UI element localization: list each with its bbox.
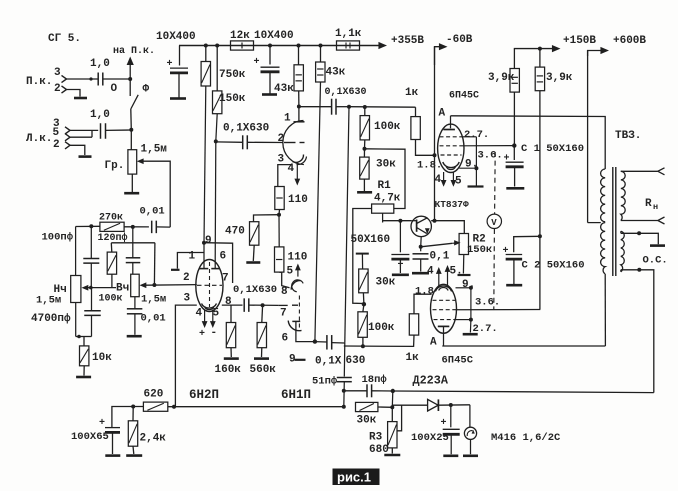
switch contact — [131, 95, 138, 109]
resistor 160к — [230, 305, 232, 322]
resistor 30к first — [363, 149, 365, 157]
svg-text:43к: 43к — [274, 83, 294, 95]
6Н2П heater arrows — [204, 310, 206, 324]
potentiometer R1 — [372, 204, 394, 213]
wire cathode to bar — [459, 167, 476, 169]
diode Д223А — [393, 404, 428, 406]
dashed screen line upper — [494, 152, 497, 214]
wire Нч wiper — [88, 287, 116, 289]
ground С1 — [506, 187, 524, 190]
wire 2.7 into tube — [456, 319, 471, 321]
svg-text:0,1Х630: 0,1Х630 — [325, 87, 367, 98]
svg-text:0,1Х630: 0,1Х630 — [223, 123, 269, 135]
triode V1a cathode arrow down — [296, 163, 298, 181]
triode V1a anode — [297, 105, 301, 109]
triode V1a cathode arc — [293, 155, 304, 163]
wire -60В line down to transistor collector — [434, 47, 436, 221]
svg-text:-: - — [211, 327, 218, 339]
junction 30к-2 100к-2 — [363, 304, 364, 312]
svg-text:560к: 560к — [250, 364, 277, 376]
resistor 43к right — [320, 46, 322, 63]
R1 wiper down to base wire — [382, 213, 384, 222]
svg-text:П.к.: П.к. — [26, 76, 52, 88]
svg-text:1.8: 1.8 — [415, 286, 434, 298]
caption рис.1 — [333, 469, 380, 486]
svg-text:+600В: +600В — [613, 35, 646, 47]
svg-text:630: 630 — [346, 355, 366, 367]
wire cathode pin3 to 110 resistor — [278, 165, 292, 187]
pin 5 bar upper — [468, 185, 484, 187]
wire Вч wiper to 6Н2П grid — [146, 284, 197, 287]
wire Гр bottom to ground — [131, 174, 133, 192]
svg-text:1к: 1к — [405, 87, 419, 99]
svg-text:R: R — [645, 198, 652, 210]
wire Л.к. pin2 to ground — [70, 145, 85, 155]
svg-text:4,7к: 4,7к — [374, 193, 401, 205]
svg-text:0,01: 0,01 — [140, 206, 165, 218]
svg-text:R3: R3 — [369, 432, 383, 444]
svg-text:5: 5 — [53, 127, 60, 139]
+600В corner arrow — [588, 51, 605, 57]
R2 bottom to pin5 bar lower — [462, 255, 464, 274]
junction 43к-right on bus — [319, 44, 323, 48]
svg-text:0,1: 0,1 — [430, 251, 450, 263]
svg-text:6П45С: 6П45С — [442, 355, 474, 367]
lower tube cathode arcs top — [435, 286, 451, 292]
capacitor 120пф — [132, 227, 134, 258]
svg-text:12к: 12к — [230, 30, 250, 42]
svg-text:КТ837Ф: КТ837Ф — [435, 199, 470, 210]
svg-text:+: + — [503, 246, 509, 257]
svg-text:100к: 100к — [99, 294, 123, 305]
svg-text:А: А — [430, 337, 437, 349]
svg-text:2: 2 — [183, 272, 190, 284]
svg-text:9.: 9. — [462, 279, 475, 291]
bottom left wire — [112, 407, 143, 428]
ground Гр — [124, 192, 139, 195]
transformer secondary upper terminals — [621, 170, 658, 172]
svg-text:7: 7 — [222, 273, 229, 285]
capacitor 0,01 second — [134, 297, 136, 309]
emitter wire down — [420, 237, 423, 247]
anode wire upper tube to transformer — [451, 116, 606, 169]
svg-text:Л.к.: Л.к. — [26, 133, 52, 145]
tube 6П45С lower envelope — [431, 284, 457, 333]
emitter wire to R2 wiper — [421, 243, 453, 247]
capacitor 50Х160 base electrolytic — [399, 221, 401, 253]
svg-text:3,9к: 3,9к — [546, 72, 573, 84]
svg-text:18пф: 18пф — [362, 373, 388, 386]
capacitor 0,1Х630 fourth — [315, 341, 327, 343]
svg-text:3.6.: 3.6. — [478, 150, 503, 162]
wire join pot and cap bottoms — [76, 336, 92, 338]
base wire from R1 wiper — [383, 220, 412, 222]
wire cap to switch node — [106, 129, 132, 131]
svg-text:+355В: +355В — [391, 35, 424, 47]
svg-text:6П45С: 6П45С — [449, 91, 479, 102]
svg-text:470: 470 — [225, 226, 245, 238]
svg-text:+: + — [398, 260, 404, 271]
ground 0,01 second — [127, 335, 142, 338]
anode bus lower — [442, 345, 605, 347]
svg-text:100к: 100к — [368, 322, 395, 334]
ground 100Х65 — [105, 454, 120, 457]
tube 6Н2П envelope — [196, 260, 223, 312]
wire 150к down to junction and anode 2 — [216, 114, 217, 142]
wire cap to grid bus node — [336, 106, 349, 108]
svg-text:V: V — [491, 218, 497, 228]
wire grid bus to 1к corner — [349, 106, 416, 109]
wire 3,9к-left down to C1 node — [513, 92, 515, 146]
connector Л.к. pin 2 — [65, 142, 70, 149]
ground 2,4к — [132, 446, 135, 454]
Вч wiper arrow — [140, 282, 147, 288]
6Н2П cathode arc — [202, 304, 217, 309]
svg-text:М416 1,6/2С: М416 1,6/2С — [491, 432, 561, 444]
svg-text:5: 5 — [213, 308, 220, 320]
meter М416 — [469, 405, 471, 427]
switch Ш arrow to на П.к. — [127, 57, 134, 66]
svg-text:6: 6 — [220, 251, 227, 263]
svg-text:1,0: 1,0 — [90, 109, 110, 121]
resistor 100к first — [364, 107, 366, 116]
wire to 470 resistor — [254, 215, 280, 222]
svg-text:1,5м: 1,5м — [141, 294, 166, 306]
svg-text:+: + — [504, 154, 510, 165]
connector Л.к. pin 5 — [65, 134, 70, 141]
junction 43к-left on bus — [297, 44, 301, 48]
junction below 110 — [278, 210, 281, 215]
svg-text:30к: 30к — [376, 277, 396, 289]
long wire 43к-right down the page — [315, 82, 321, 342]
svg-text:100Х65: 100Х65 — [71, 431, 109, 443]
svg-text:+150В: +150В — [563, 35, 596, 47]
ground 470 — [246, 261, 260, 264]
-60В corner and arrow — [435, 47, 444, 65]
resistor 150к — [216, 46, 218, 91]
svg-text:8: 8 — [281, 286, 288, 298]
svg-text:4: 4 — [427, 266, 434, 278]
triode V1a grid dashes — [284, 142, 296, 144]
resistor 3,9к right — [539, 49, 541, 68]
svg-text:1,5м: 1,5м — [141, 144, 168, 156]
svg-text:С 1 50Х160: С 1 50Х160 — [521, 143, 584, 155]
svg-text:9: 9 — [205, 235, 212, 247]
svg-text:4: 4 — [435, 174, 442, 186]
svg-text:1,0: 1,0 — [90, 58, 110, 70]
grid network vertical line — [345, 107, 349, 343]
transformer primary winding lower — [601, 223, 606, 274]
6Н2П pin9 wire to grid2 — [204, 243, 233, 283]
wire 750к down to 6Н2П anode 1 — [204, 86, 206, 243]
wire node down — [391, 391, 394, 407]
svg-text:3,9к: 3,9к — [488, 72, 515, 84]
lower tube anode — [438, 325, 450, 327]
secondary lower bottom terminal feedback — [620, 270, 622, 272]
grid line junction 100к-2 — [361, 344, 365, 348]
connector П.к. pin 2 — [62, 86, 67, 93]
ground С2 — [506, 284, 522, 287]
resistor 43к left — [298, 46, 300, 65]
svg-text:110: 110 — [288, 194, 308, 206]
svg-text:О.С.: О.С. — [643, 255, 668, 267]
junction 100к 30к — [364, 140, 366, 149]
1к lower bottom to grid line — [344, 335, 414, 346]
ground Л.к. — [79, 155, 92, 158]
wire grid2 lower to 3,9к right line — [456, 309, 541, 311]
ground М416 — [463, 454, 478, 457]
svg-text:О: О — [111, 83, 118, 95]
connector П.к. pin 3 — [62, 75, 67, 82]
secondary lower top terminal to ground — [620, 231, 622, 233]
svg-text:2: 2 — [54, 83, 61, 95]
svg-text:1,5м: 1,5м — [36, 295, 61, 307]
wire 270к to 0,01 — [124, 226, 149, 228]
resistor 110 second bottom wire to 6Н1П anode — [279, 272, 289, 288]
svg-text:5: 5 — [287, 266, 294, 278]
svg-text:150к: 150к — [219, 93, 246, 105]
transformer primary winding upper — [601, 169, 606, 222]
upper tube grid dashes — [440, 136, 463, 138]
voltmeter circle — [487, 214, 501, 228]
arrow +355В — [378, 42, 387, 49]
R1 left wire down — [353, 209, 372, 304]
capacitor 0,1Х630 second — [331, 99, 333, 115]
svg-text:2,4к: 2,4к — [140, 433, 167, 445]
svg-text:рис.1: рис.1 — [337, 470, 371, 485]
capacitor 4700пф — [91, 288, 93, 311]
wire R1 left line to 30к junction — [352, 302, 354, 304]
svg-text:6Н2П: 6Н2П — [189, 388, 219, 402]
svg-text:6: 6 — [282, 333, 289, 345]
svg-text:А: А — [439, 108, 446, 120]
svg-text:750к: 750к — [219, 69, 246, 81]
svg-text:1к: 1к — [406, 352, 420, 364]
svg-text:5.: 5. — [450, 266, 463, 278]
feedback wire from transformer — [393, 391, 654, 393]
power bus +355В wire — [179, 45, 382, 47]
svg-text:3: 3 — [54, 67, 61, 79]
wire switch down to Л.к. node — [130, 109, 133, 130]
junction 3,9к right on +150В bus — [538, 47, 542, 51]
wire 30к to ground — [363, 179, 365, 191]
wire 3,9к-right down to lower screen node — [539, 91, 541, 310]
wire Нч top — [75, 227, 77, 276]
svg-text:50Х160: 50Х160 — [351, 234, 391, 246]
tube 6Н1П anode arc — [291, 281, 300, 290]
wire 30к to R3 node — [378, 406, 392, 408]
tube 6П45С upper envelope — [438, 124, 464, 172]
resistor 10к — [83, 337, 85, 346]
capacitor 100пф — [90, 226, 92, 258]
svg-text:7: 7 — [280, 308, 287, 320]
transformer secondary winding lower — [621, 231, 624, 272]
resistor 100к tone — [107, 252, 116, 274]
wire junction down to 110 second — [278, 215, 280, 247]
wire anode node to coupling cap — [299, 106, 332, 108]
svg-text:0,01: 0,01 — [141, 313, 166, 325]
svg-text:ТВЗ.: ТВЗ. — [615, 130, 641, 142]
svg-text:30к: 30к — [357, 415, 377, 427]
6Н2П pin3 wire down to 620 node — [175, 305, 196, 406]
svg-text:2: 2 — [53, 139, 60, 151]
svg-text:4: 4 — [196, 308, 203, 320]
wire П.к. pin2 to ground — [67, 90, 81, 97]
Гр wiper arrow — [137, 158, 144, 164]
resistor 110 first — [275, 187, 284, 210]
svg-text:3.6.: 3.6. — [475, 297, 500, 309]
transformer core lines — [612, 167, 614, 276]
svg-text:51пф: 51пф — [312, 375, 338, 388]
upper tube anode — [450, 116, 452, 129]
wire junction to R1 right end — [365, 149, 406, 209]
svg-text:Вч: Вч — [116, 283, 129, 295]
wire 1к to -60В line — [416, 140, 435, 156]
svg-text:1,1к: 1,1к — [335, 28, 362, 40]
svg-text:+: + — [441, 418, 447, 429]
wire Л.к. pin3 pin5 join — [70, 129, 98, 131]
ground 50Х160 — [392, 273, 409, 276]
tube 6Н1П divider dash — [298, 296, 300, 330]
resistor 110 second — [275, 247, 284, 272]
svg-text:4700пф: 4700пф — [31, 312, 71, 325]
svg-text:Д223А: Д223А — [413, 374, 449, 388]
wire 0,01 corner up to Гр wiper line — [156, 226, 170, 228]
svg-text:100пф: 100пф — [42, 231, 74, 244]
svg-text:н: н — [653, 202, 658, 212]
svg-text:+: + — [199, 329, 205, 340]
wire tone top — [76, 225, 100, 227]
wire 10к ground — [83, 366, 85, 376]
svg-text:10Х400: 10Х400 — [254, 30, 294, 42]
6Н2П pin1 wire and stub — [177, 253, 204, 269]
transformer secondary winding upper — [621, 171, 625, 220]
ground of second 10Х400 — [262, 93, 277, 96]
wire cap to 6Н1П grid — [249, 304, 278, 306]
wire Нч bottom — [75, 303, 77, 337]
wire grid1 to cathode bar — [463, 136, 477, 138]
wire grid2 to C1 node — [463, 145, 515, 147]
svg-text:Гр.: Гр. — [105, 160, 125, 172]
transformer primary bottom to anode bus — [604, 274, 606, 346]
wire +600В down to transformer tap — [587, 51, 589, 223]
upper tube cathode arcs — [443, 162, 459, 168]
ground 560к — [261, 348, 263, 357]
wire 470 to ground — [252, 245, 255, 261]
ground R3 — [391, 448, 393, 454]
connector Л.к. pin 3 — [65, 127, 70, 134]
resistor 560к — [261, 305, 264, 322]
T bar above 30к second — [356, 253, 369, 255]
svg-text:110: 110 — [288, 252, 308, 264]
svg-text:30к: 30к — [376, 159, 396, 171]
6Н2П pin8 wire to coupling cap — [222, 304, 243, 306]
Нч wiper arrow — [82, 285, 89, 291]
svg-text:2: 2 — [278, 133, 285, 145]
wire diode to meter branch — [438, 404, 470, 406]
svg-text:1: 1 — [284, 113, 291, 125]
svg-text:R1: R1 — [378, 180, 392, 192]
junction 150к on bus — [215, 44, 219, 48]
wire tone mid — [111, 242, 155, 244]
ground 0,1 — [412, 272, 429, 275]
svg-text:+: + — [99, 418, 105, 429]
svg-text:+: + — [254, 57, 260, 68]
resistor 750к — [205, 46, 207, 62]
svg-text:620: 620 — [144, 389, 164, 401]
junction 750к on bus — [204, 44, 208, 48]
ground of first 10Х400 — [170, 97, 186, 100]
tube 6Н1П cathode — [288, 321, 301, 331]
svg-text:0,1Х630: 0,1Х630 — [233, 284, 277, 296]
svg-text:150к: 150к — [467, 244, 492, 256]
wire 2.7 node to ground — [469, 320, 472, 333]
ground 10к — [76, 376, 91, 379]
svg-text:5: 5 — [455, 176, 462, 188]
transistor КТ837Ф — [411, 216, 431, 236]
resistor 2,4к — [132, 407, 134, 421]
+150В bus wire — [514, 48, 556, 50]
svg-text:10к: 10к — [92, 352, 112, 364]
svg-text:на П.к.: на П.к. — [113, 46, 155, 57]
svg-text:100к: 100к — [374, 121, 401, 133]
wire cap to switch node — [103, 78, 130, 80]
wire node to Гр pot — [130, 130, 132, 150]
svg-text:1.8.: 1.8. — [417, 160, 442, 172]
ground О.С. — [650, 244, 665, 247]
6Н2П grid dash line — [197, 284, 222, 286]
triode V1a envelope — [283, 121, 304, 165]
wire Гр wiper to tone network — [144, 161, 171, 227]
svg-text:160к: 160к — [215, 364, 242, 376]
6Н2П divider dash line — [209, 262, 211, 307]
wire 9 to 2.7 node — [470, 288, 472, 320]
svg-text:3: 3 — [278, 154, 285, 166]
ground 160к — [230, 348, 232, 357]
svg-text:6Н1П: 6Н1П — [281, 388, 311, 402]
6Н2П anode leads — [202, 241, 206, 245]
svg-text:43к: 43к — [326, 67, 346, 79]
ground П.к. — [74, 97, 87, 100]
ground 100Х25 — [443, 454, 458, 457]
transformer primary tap to +600В — [588, 222, 601, 224]
svg-text:120пф: 120пф — [98, 231, 128, 244]
ground 30к first — [357, 191, 372, 194]
svg-text:10Х400: 10Х400 — [156, 31, 196, 43]
svg-text:3: 3 — [184, 293, 191, 305]
R3 wiper tap — [397, 405, 402, 431]
wire П.к. pin3 to cap — [67, 78, 98, 80]
wire 43к-left to anode node — [298, 91, 300, 107]
svg-text:-60В: -60В — [446, 34, 473, 46]
svg-text:0,1Х: 0,1Х — [315, 356, 342, 368]
dashed screen line lower — [493, 229, 496, 309]
lower tube grid dashes — [433, 299, 456, 301]
svg-text:С 2 50Х160: С 2 50Х160 — [522, 260, 585, 272]
svg-text:СГ 5.: СГ 5. — [48, 33, 81, 45]
wire cap to triode grid — [247, 141, 283, 143]
svg-text:Ф: Ф — [143, 84, 150, 96]
collector wire to R2 — [431, 221, 464, 234]
wire 620 to right — [168, 406, 344, 408]
lower cathode wire to junction — [456, 287, 471, 289]
